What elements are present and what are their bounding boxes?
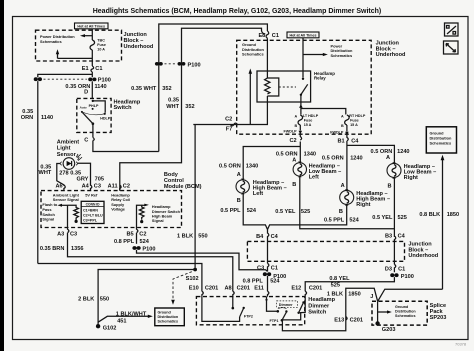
BCM pull-up resistor (flash to pass): [68, 205, 79, 223]
pin E12/C201: [291, 286, 322, 297]
svg-text:D3: D3: [385, 266, 392, 272]
svg-text:Schematics: Schematics: [40, 39, 62, 44]
svg-text:Schematics: Schematics: [242, 51, 264, 56]
svg-text:G203: G203: [382, 327, 396, 333]
svg-text:F7: F7: [226, 127, 233, 133]
svg-text:352: 352: [185, 104, 194, 110]
svg-text:FTP2: FTP2: [244, 314, 253, 318]
svg-text:10 A: 10 A: [97, 47, 105, 51]
pin A3/C3: [57, 228, 77, 238]
BCM pin labels A6, A4/C3, A11/C2: [55, 184, 65, 191]
svg-text:Headlights Schematics (BCM, He: Headlights Schematics (BCM, Headlamp Rel…: [93, 8, 382, 15]
wire: P100 PPL down to E11: [267, 276, 269, 291]
wire: E1 to P100 with branch: [38, 72, 93, 77]
svg-text:1850: 1850: [348, 292, 360, 298]
svg-text:524: 524: [247, 208, 257, 214]
svg-text:PHLP: PHLP: [89, 104, 99, 108]
svg-text:524: 524: [270, 278, 280, 284]
wire: low-left B crosses to YEL run: [300, 176, 395, 229]
svg-text:S102: S102: [186, 276, 199, 282]
svg-text:P100: P100: [142, 247, 155, 253]
ground distribution reference (splice pack): [378, 301, 417, 322]
svg-text:1240: 1240: [397, 149, 409, 155]
svg-text:524: 524: [349, 218, 359, 224]
connector B3/C4: [385, 233, 406, 242]
svg-text:HDLP: HDLP: [100, 117, 111, 121]
connector C2/F7: [225, 116, 237, 132]
scan black edge band: [0, 0, 4, 351]
svg-text:Fuse: Fuse: [97, 43, 106, 47]
svg-text:Auto: Auto: [80, 106, 87, 110]
power distribution schematics reference (left): [40, 34, 92, 44]
svg-text:FWDLP: FWDLP: [330, 131, 344, 135]
svg-text:SP203: SP203: [430, 315, 447, 321]
svg-text:525: 525: [398, 215, 407, 221]
svg-text:A: A: [386, 155, 390, 161]
wire label 0.5 PPL 524 (high right): [324, 218, 360, 224]
connector P100 (main, left): [34, 77, 111, 83]
wire: RT fuse to right lamps, branch: [347, 141, 395, 190]
svg-text:A6: A6: [55, 184, 62, 190]
flash to pass signal arrow: [42, 202, 67, 221]
svg-text:Right: Right: [404, 175, 418, 181]
svg-text:15 A: 15 A: [350, 123, 358, 127]
svg-text:Left: Left: [253, 191, 263, 197]
svg-text:E13: E13: [334, 318, 344, 324]
wire: BCM B5 PPL to P100: [136, 233, 138, 244]
wire: B3 through junction block to D3/C1: [393, 242, 395, 264]
svg-text:1140: 1140: [41, 115, 53, 121]
svg-text:Left: Left: [309, 174, 319, 180]
wire label 0.8 BLK 1850: [419, 212, 459, 218]
connector P100 (B5 PPL): [132, 246, 155, 252]
wire W1: 0.35 WHT 352 to E8/C1: [159, 24, 268, 152]
wire label 0.8 PPL 524 (B5): [114, 239, 150, 245]
wire: hot feed into relay switch: [302, 38, 304, 71]
svg-text:550: 550: [100, 297, 109, 303]
connector B4/C4: [256, 230, 278, 242]
wire: left ORN branch down: [37, 81, 39, 263]
wire: high-left B to B4/C4: [243, 193, 267, 229]
headlamp low beam right: [386, 155, 436, 189]
svg-text:C2: C2: [225, 116, 232, 122]
svg-text:E8: E8: [258, 33, 265, 39]
wire: 0.8 BLK joins J: [378, 289, 443, 301]
splice pack box: [372, 301, 427, 325]
ground G102: [96, 324, 116, 332]
wire: B4 through junction block to C3/C1: [267, 241, 269, 263]
connector C3/C1: [257, 263, 278, 271]
ground distribution schematics box (bottom left): [155, 308, 185, 326]
connector P100 (PPL): [263, 272, 286, 280]
svg-text:1850: 1850: [447, 212, 459, 218]
svg-text:Distribution: Distribution: [395, 310, 416, 314]
svg-text:C3: C3: [94, 184, 101, 190]
svg-text:A11: A11: [108, 184, 118, 190]
connector P100 (YEL): [390, 273, 414, 280]
svg-text:Dimmer: Dimmer: [279, 303, 293, 307]
wire: P100 down to headlamp switch pin D: [91, 81, 93, 98]
wire: hot feed down: [91, 29, 93, 40]
svg-text:Right: Right: [356, 202, 370, 208]
BCM high-beam signal resistor: [137, 204, 181, 228]
svg-text:C201: C201: [237, 286, 250, 292]
splice pack label: [430, 303, 447, 321]
ground distribution schematics reference (in junction block): [242, 42, 264, 124]
wire W2: 0.35 WHT 352 from BCM A11: [120, 28, 265, 190]
FWDLP terminal LT: [283, 125, 302, 134]
svg-text:Hot at All Times: Hot at All Times: [290, 34, 317, 38]
wire label 0.5 YEL 525 (low right): [372, 215, 407, 221]
svg-text:J: J: [370, 294, 373, 300]
connector B1/C4 (RT fuse out): [337, 133, 359, 144]
svg-text:0.8 YEL: 0.8 YEL: [329, 276, 350, 282]
ground G203: [375, 321, 395, 333]
svg-text:Hot at All Times: Hot at All Times: [77, 25, 105, 29]
svg-text:C2=LT BLU: C2=LT BLU: [83, 214, 103, 218]
svg-text:Fuse: Fuse: [350, 119, 359, 123]
svg-text:Light: Light: [57, 145, 71, 151]
svg-text:RT HDLP: RT HDLP: [349, 114, 366, 118]
svg-text:15 A: 15 A: [304, 123, 312, 127]
svg-text:P100: P100: [188, 62, 201, 68]
dimmer internals: flash-to-pass FTP2: [202, 297, 253, 322]
svg-text:5V Ref: 5V Ref: [85, 193, 98, 198]
wire label 0.35 WHT 278: [39, 165, 69, 177]
svg-text:G102: G102: [103, 326, 117, 332]
wire: LT fuse to left lamps, branch: [243, 142, 300, 180]
svg-text:0.5 ORN: 0.5 ORN: [322, 155, 344, 161]
svg-text:Voltage: Voltage: [111, 206, 126, 211]
svg-text:WHT: WHT: [166, 104, 179, 110]
svg-text:B4: B4: [256, 234, 264, 240]
wire: relay coil to C2/F7 ground path: [193, 102, 267, 125]
wire: BCM A3 BRN across to A8: [68, 233, 233, 291]
svg-text:B: B: [341, 124, 344, 128]
svg-text:B1: B1: [337, 138, 344, 144]
wire: YEL from P100 across to E12: [305, 277, 394, 291]
connector P100 on WHT wires: [155, 62, 201, 68]
wire: switch C output to WHT wire: [93, 141, 159, 152]
relay mech dashed link: [279, 86, 296, 88]
wire: E8 into relay coil: [266, 38, 268, 71]
wire label 0.5 YEL 525 (low left): [275, 209, 310, 215]
relay coil: [265, 71, 279, 102]
svg-text:FWDLP: FWDLP: [283, 130, 297, 134]
nav icon box 2: [444, 41, 459, 54]
BCM label: [164, 172, 202, 190]
svg-text:B: B: [387, 183, 391, 189]
svg-text:C201: C201: [309, 286, 322, 292]
wire label 0.5 ORN 1340 (high left): [219, 163, 258, 169]
svg-text:B: B: [292, 182, 296, 188]
svg-text:1240: 1240: [350, 155, 362, 161]
svg-text:C4: C4: [351, 138, 359, 144]
svg-text:Signal: Signal: [42, 217, 54, 222]
wire: PPL from P100 joins C3/C1 wire: [137, 250, 268, 272]
svg-text:C4: C4: [271, 234, 279, 240]
svg-text:550: 550: [198, 234, 207, 240]
wire label 0.5 ORN 1240 (high right): [322, 155, 363, 161]
wire: high-right B joins B4/C4: [268, 204, 347, 229]
svg-text:Underhood: Underhood: [124, 44, 154, 50]
branch arrow up (other circuits): [56, 49, 93, 58]
svg-text:70378: 70378: [455, 342, 467, 347]
svg-text:D: D: [84, 90, 88, 96]
wire label 0.35 WHT 352 (W2): [166, 98, 194, 110]
svg-text:B: B: [339, 209, 343, 215]
pin B5/C2: [126, 228, 146, 238]
svg-text:E1: E1: [82, 66, 89, 72]
svg-text:P100: P100: [98, 78, 111, 84]
svg-text:0.35 BRN: 0.35 BRN: [40, 246, 65, 252]
svg-text:Ground: Ground: [158, 311, 172, 315]
wire label 0.35 WHT 352 (W1): [131, 86, 172, 92]
svg-text:Module (BCM): Module (BCM): [164, 184, 202, 190]
headlamp dimmer switch label: [308, 297, 335, 315]
pin E11: [254, 286, 269, 297]
svg-text:A: A: [295, 115, 298, 119]
svg-text:Switch: Switch: [308, 310, 327, 316]
svg-text:C1: C1: [95, 66, 102, 72]
svg-text:451: 451: [117, 318, 126, 324]
svg-text:525: 525: [331, 283, 340, 289]
relay switch: [300, 71, 308, 102]
wire: fuse to E1/C1: [91, 50, 93, 66]
headlamp high beam right: [339, 183, 390, 215]
wire: relay switch output + branch to both fuses: [299, 102, 346, 115]
svg-text:Underhood: Underhood: [376, 52, 406, 58]
svg-text:705: 705: [95, 177, 104, 183]
svg-text:1340: 1340: [246, 163, 258, 169]
svg-text:P100: P100: [401, 274, 414, 280]
wire label 2 BLK 550: [78, 297, 109, 303]
svg-text:Schematics: Schematics: [331, 53, 353, 58]
svg-text:TBC: TBC: [97, 38, 105, 42]
svg-text:Fuse: Fuse: [304, 119, 313, 123]
FWDLP terminal RT: [330, 125, 348, 135]
wire label 0.5 PPL 524 (high left): [220, 208, 257, 214]
svg-text:E10: E10: [189, 286, 199, 292]
svg-text:524: 524: [140, 239, 150, 245]
svg-text:0.5 PPL: 0.5 PPL: [220, 208, 241, 214]
svg-text:1340: 1340: [304, 151, 316, 157]
svg-text:0.35: 0.35: [70, 170, 81, 176]
BCM box: [41, 191, 182, 228]
fuse RT HDLP 15A: [341, 114, 366, 128]
svg-text:278: 278: [59, 170, 68, 176]
svg-text:C4: C4: [398, 233, 406, 239]
wire: G102 branch 1 BLK/WHT 451: [98, 312, 153, 325]
wire label 0.5 ORN 1240 (low right): [371, 149, 410, 155]
svg-text:0.5 ORN: 0.5 ORN: [371, 149, 393, 155]
svg-text:Switch: Switch: [114, 105, 133, 111]
ambient light sensor symbol: [60, 158, 78, 170]
svg-text:352: 352: [162, 86, 171, 92]
svg-text:Distribution: Distribution: [158, 315, 179, 319]
headlamp relay box: [257, 71, 311, 102]
svg-text:A8: A8: [224, 286, 231, 292]
svg-text:C1: C1: [271, 265, 278, 271]
svg-text:0.5 YEL: 0.5 YEL: [275, 209, 296, 215]
svg-text:B: B: [237, 198, 241, 204]
wire: low-right B down through B3/C4: [393, 177, 395, 237]
wire: ORN 1140 across to E10: [38, 264, 202, 292]
svg-text:0.8 BLK: 0.8 BLK: [419, 212, 440, 218]
svg-text:1 BLK: 1 BLK: [327, 292, 343, 298]
power distribution schematics reference (right): [303, 44, 353, 58]
wire label 0.35 BRN 1356: [40, 246, 84, 252]
wire: pin A3 inside BCM: [67, 205, 69, 227]
connector E1/C1: [82, 66, 103, 72]
svg-text:A3: A3: [57, 231, 64, 237]
svg-text:C2: C2: [139, 231, 146, 237]
wire label 1 BLK 1850: [327, 292, 361, 298]
svg-text:0.35 WHT: 0.35 WHT: [131, 86, 157, 92]
wire label 0.5 ORN 1340 (low left): [276, 151, 316, 157]
svg-text:0.5 PPL: 0.5 PPL: [324, 218, 345, 224]
svg-text:FTP1: FTP1: [270, 319, 279, 323]
Hot at All Times box (right): [287, 32, 319, 38]
junction block underhood box (left, dashed): [36, 30, 122, 61]
splice S102: [171, 268, 198, 305]
svg-text:Ground: Ground: [395, 305, 409, 309]
junction block label (bottom right): [408, 242, 438, 260]
wire: 1 BLK 550 down to S102: [194, 125, 196, 268]
svg-text:A: A: [237, 172, 241, 178]
svg-text:Schematics: Schematics: [430, 140, 452, 145]
svg-text:1 BLK/WHT: 1 BLK/WHT: [116, 312, 147, 318]
svg-text:C1: C1: [398, 266, 405, 272]
headlamp switch internals: [80, 100, 111, 133]
svg-text:C201: C201: [205, 286, 218, 292]
wire: sensor right to A4: [78, 163, 91, 186]
connector E8/C1: [258, 31, 279, 39]
BCM internal labels: [53, 193, 131, 212]
svg-text:C1=BRN: C1=BRN: [83, 209, 98, 213]
dimmer internals: dimmer contacts: [265, 297, 305, 323]
headlamp switch box: [77, 98, 111, 132]
svg-text:0.5 ORN: 0.5 ORN: [219, 163, 241, 169]
svg-text:WHT: WHT: [39, 170, 52, 176]
svg-text:B3: B3: [385, 233, 392, 239]
pin A8/C201: [224, 286, 250, 297]
svg-text:E12: E12: [291, 286, 301, 292]
svg-text:A: A: [341, 115, 344, 119]
pin C of headlamp switch: [84, 132, 94, 143]
wire label 0.35 GRY 705: [70, 170, 104, 182]
svg-text:C1: C1: [272, 33, 279, 39]
wire: sensor left to A6: [57, 164, 64, 186]
svg-text:Signal: Signal: [152, 218, 164, 223]
headlamp high beam left: [236, 172, 287, 204]
light ray arrows: [76, 154, 82, 161]
connector D3/C1: [385, 264, 405, 272]
connector E13/C201: [334, 317, 363, 324]
svg-text:ORN: ORN: [21, 115, 33, 121]
svg-text:1140: 1140: [95, 84, 107, 90]
svg-text:CONN ID: CONN ID: [86, 203, 101, 207]
svg-text:Schematics: Schematics: [395, 314, 416, 318]
svg-text:A: A: [292, 157, 296, 163]
svg-text:C3: C3: [70, 231, 77, 237]
wire label 0.8 YEL 525: [329, 276, 350, 289]
svg-text:Schematics: Schematics: [158, 320, 179, 324]
svg-text:Relay: Relay: [314, 76, 326, 81]
svg-text:0.8 PPL: 0.8 PPL: [114, 239, 135, 245]
junction block underhood strip (bottom, dashed): [247, 241, 404, 261]
junction block underhood box (top, dashed): [237, 40, 372, 134]
svg-text:B5: B5: [126, 231, 133, 237]
CONN ID table: [81, 201, 104, 223]
svg-text:0.8 PPL: 0.8 PPL: [243, 278, 264, 284]
fuse LT HDLP 15A: [295, 114, 319, 128]
svg-text:C2: C2: [123, 184, 130, 190]
junction block label (right): [376, 41, 406, 59]
svg-text:E11: E11: [254, 286, 264, 292]
svg-text:A: A: [341, 183, 345, 189]
wire: dimmer common out to E13: [282, 288, 377, 330]
svg-text:0.35: 0.35: [168, 98, 179, 104]
Hot at All Times box (left): [75, 23, 109, 29]
svg-text:LT HDLP: LT HDLP: [303, 114, 319, 118]
wire label 0.8 PPL 524 (E11): [243, 278, 281, 284]
svg-text:Underhood: Underhood: [408, 253, 438, 259]
svg-text:C201: C201: [350, 318, 363, 324]
wire label 0.35 ORN 1140 (left branch): [21, 109, 53, 121]
junction block label (left): [124, 32, 154, 50]
headlamp dimmer switch box: [196, 297, 304, 325]
nav icon box 1: [445, 23, 459, 36]
connector C2 (LT fuse out): [289, 132, 301, 144]
svg-text:C2: C2: [289, 138, 296, 144]
svg-text:Headlamp: Headlamp: [308, 297, 335, 303]
svg-text:525: 525: [301, 209, 310, 215]
svg-text:C3=PPL: C3=PPL: [83, 219, 98, 223]
svg-text:C: C: [84, 138, 88, 144]
svg-text:Sensor: Sensor: [57, 152, 77, 158]
svg-text:A4: A4: [82, 184, 90, 190]
svg-text:0.5 YEL: 0.5 YEL: [372, 215, 393, 221]
svg-text:2 BLK: 2 BLK: [78, 297, 94, 303]
svg-text:B: B: [295, 124, 298, 128]
svg-text:1 BLK: 1 BLK: [177, 234, 193, 240]
svg-text:Dimmer: Dimmer: [308, 303, 330, 309]
svg-text:1356: 1356: [71, 246, 83, 252]
fuse TBC 10A: [90, 38, 106, 51]
pin E10/C201: [189, 286, 219, 297]
headlamp low beam left: [292, 157, 341, 188]
svg-text:GRY: GRY: [76, 177, 88, 183]
wire label 0.35 ORN 1140 (main): [65, 84, 106, 90]
wire label 1 BLK 550: [177, 234, 208, 240]
wire: S102 to G102: [98, 270, 195, 325]
